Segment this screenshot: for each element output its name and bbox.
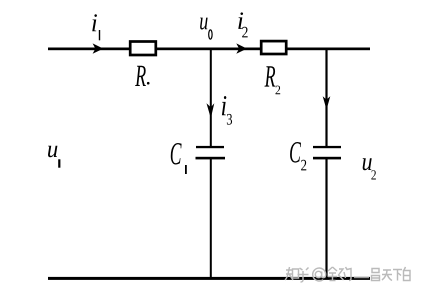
watermark <box>285 267 410 282</box>
current arrow on right vertical wire <box>323 96 331 109</box>
node label u1 (input voltage) <box>48 146 60 168</box>
resistor R2 label <box>265 66 281 94</box>
capacitor C2 <box>313 146 341 160</box>
current arrow i1 on top wire <box>93 43 104 53</box>
current label i1 <box>92 14 100 40</box>
wire bottom horizontal <box>48 277 370 280</box>
resistor R1 <box>130 42 156 56</box>
resistor R2 <box>261 41 286 54</box>
current label i3 <box>222 96 232 125</box>
wire right vertical upper segment (top wire down to C2) <box>325 48 327 146</box>
node label u0 <box>200 18 212 39</box>
capacitor C2 label <box>290 142 306 170</box>
current label i2 <box>238 12 247 37</box>
resistor R1 label <box>135 66 149 86</box>
current arrow i3 on middle vertical wire <box>207 103 215 118</box>
wire middle vertical lower segment (C1 down to bottom wire) <box>210 159 212 278</box>
capacitor C1 label <box>171 143 187 174</box>
wire right vertical lower segment (C2 down to bottom wire) <box>325 159 327 278</box>
wire top horizontal <box>48 48 370 51</box>
wire middle vertical upper segment (node u0 down to C1) <box>210 48 212 146</box>
current arrow i2 on top wire <box>236 43 247 53</box>
node label u2 (output voltage) <box>363 158 376 179</box>
capacitor C1 <box>196 146 226 160</box>
